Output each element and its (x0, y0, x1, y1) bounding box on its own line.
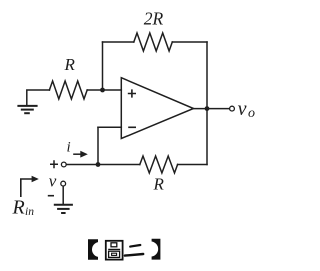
wire output vertical upper (206, 42, 208, 109)
terminal input + circle (61, 162, 66, 167)
svg-text:R: R (64, 55, 76, 74)
Rin arrow (21, 176, 39, 197)
terminal output circle (230, 106, 235, 111)
wire input terminal to junction (66, 164, 98, 166)
label - (input terminal polarity) (48, 195, 54, 197)
resistor R1 (left R) (49, 81, 87, 99)
terminal v circle (61, 181, 66, 186)
node A junction dot (noninverting input) (100, 88, 105, 93)
svg-text:v: v (238, 98, 247, 120)
label + (input terminal polarity) (50, 160, 58, 168)
wire bottom rail right segment (178, 164, 207, 166)
wire output vertical lower (206, 109, 208, 165)
resistor 2R (134, 33, 173, 51)
ground (left, under R1) (17, 106, 37, 113)
wire v source terminal to ground (62, 186, 64, 204)
node output junction dot (205, 106, 210, 111)
wire ground to resistor R (27, 90, 50, 106)
wire top rail left segment (103, 41, 134, 43)
svg-text:R: R (153, 175, 165, 194)
ground (under v source) (54, 205, 73, 213)
node B junction dot (input/bottom rail) (96, 162, 101, 167)
current arrow i (73, 151, 88, 158)
svg-text:i: i (67, 140, 71, 156)
caption glyph er (two) (125, 245, 143, 256)
wire inverting input horizontal (98, 126, 121, 128)
wire op-amp output to terminal (194, 108, 230, 110)
caption glyph tu (figure) (106, 241, 123, 260)
wire R to op-amp noninverting input (87, 89, 121, 91)
wire bottom rail left segment (98, 164, 140, 166)
op-amp U1 (121, 78, 193, 139)
caption bracket right (152, 239, 161, 260)
svg-text:2R: 2R (144, 9, 164, 29)
svg-text:v: v (49, 172, 57, 191)
caption bracket left (88, 239, 98, 260)
wire feedback vertical left (node A up to top rail) (102, 42, 104, 90)
svg-text:R: R (12, 197, 25, 219)
svg-text:o: o (248, 106, 255, 121)
svg-text:in: in (25, 206, 34, 218)
resistor R2 (bottom R) (140, 156, 178, 173)
wire top rail right segment (172, 41, 207, 43)
wire inverting input vertical (97, 127, 99, 164)
